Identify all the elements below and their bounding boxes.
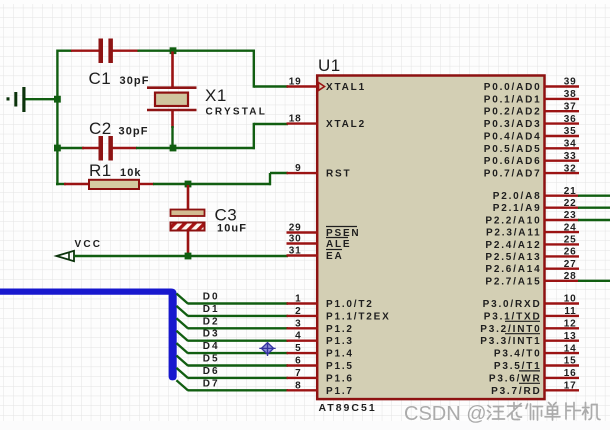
- svg-text:D6: D6: [203, 366, 220, 377]
- svg-text:P0.1/AD1: P0.1/AD1: [484, 94, 542, 105]
- svg-text:7: 7: [295, 368, 301, 379]
- svg-text:5: 5: [295, 343, 301, 354]
- pin 6 stub: [287, 364, 319, 366]
- wire P2 bus: [578, 194, 610, 196]
- svg-text:26: 26: [564, 247, 577, 258]
- svg-text:D2: D2: [203, 316, 220, 327]
- svg-text:P1.7: P1.7: [326, 386, 354, 397]
- wire C2 left: [57, 147, 84, 149]
- svg-text:ALE: ALE: [326, 239, 351, 250]
- pin 4 stub: [287, 340, 319, 342]
- pin 16 stub: [544, 377, 579, 379]
- wire D1 to P1.1: [188, 315, 289, 317]
- ground: [7, 87, 26, 112]
- svg-text:37: 37: [564, 101, 577, 112]
- svg-text:P1.2: P1.2: [326, 324, 354, 335]
- wire C1 left: [57, 50, 72, 52]
- svg-text:D7: D7: [203, 378, 220, 389]
- capacitor C1: [71, 39, 139, 64]
- svg-text:15: 15: [564, 356, 577, 367]
- svg-text:36: 36: [564, 114, 577, 125]
- wire D2 to P1.2: [188, 327, 289, 329]
- svg-text:18: 18: [289, 114, 302, 125]
- svg-text:P0.0/AD0: P0.0/AD0: [484, 82, 542, 93]
- junction R1/C3: [185, 181, 192, 188]
- svg-text:P1.0/T2: P1.0/T2: [326, 299, 374, 310]
- svg-text:P2.2/A10: P2.2/A10: [485, 216, 541, 227]
- svg-text:14: 14: [564, 343, 577, 354]
- junction ground/left rail: [54, 96, 61, 103]
- svg-text:3: 3: [295, 318, 301, 329]
- wire P2 bus: [578, 206, 610, 208]
- svg-text:23: 23: [564, 210, 577, 221]
- junction C3/VCC wire: [185, 253, 192, 260]
- overline INT0: [505, 320, 540, 322]
- svg-text:P2.6/A14: P2.6/A14: [485, 264, 541, 275]
- wire D4 to P1.4: [188, 352, 289, 354]
- pin 14 stub: [544, 352, 579, 354]
- bus entry D0: [176, 294, 187, 304]
- svg-text:19: 19: [289, 77, 302, 88]
- junction left rail / C2: [54, 145, 61, 152]
- capacitor C3: [171, 185, 205, 253]
- bus entry D2: [176, 318, 187, 328]
- wire D6 to P1.6: [188, 377, 289, 379]
- pin 28 stub: [544, 280, 579, 282]
- bus entry D3: [176, 331, 187, 341]
- svg-text:P2.3/A11: P2.3/A11: [486, 228, 542, 239]
- pin 30 stub: [287, 242, 319, 244]
- svg-text:11: 11: [564, 306, 576, 317]
- pin 9 stub: [287, 172, 319, 174]
- overline RD: [519, 382, 540, 384]
- overline INT1: [505, 333, 540, 335]
- svg-text:P2.5/A13: P2.5/A13: [485, 252, 541, 263]
- svg-text:U1: U1: [318, 56, 341, 75]
- svg-text:1: 1: [295, 294, 301, 305]
- svg-text:33: 33: [564, 151, 577, 162]
- overline WR: [519, 370, 540, 372]
- pin 31 stub: [287, 254, 319, 256]
- wire to XTAL1: [254, 85, 288, 87]
- wire P2 bus: [578, 219, 610, 221]
- pin 33 stub: [544, 159, 579, 161]
- svg-text:16: 16: [564, 368, 577, 379]
- wire D3 to P1.3: [188, 340, 289, 342]
- bus entry D6: [176, 368, 187, 378]
- wire node to XTAL1 vertical: [253, 50, 255, 88]
- svg-text:22: 22: [564, 198, 577, 209]
- svg-text:C2: C2: [89, 119, 112, 138]
- svg-text:D0: D0: [203, 292, 220, 303]
- wire to R1: [56, 183, 66, 185]
- wire left vertical rail: [56, 50, 58, 186]
- svg-text:12: 12: [564, 319, 577, 330]
- pin 35 stub: [544, 135, 579, 137]
- svg-text:P3.4/T0: P3.4/T0: [494, 349, 542, 360]
- pin 36 stub: [544, 122, 579, 124]
- svg-text:4: 4: [295, 331, 301, 342]
- watermark band: [0, 421, 610, 430]
- svg-text:C1: C1: [89, 69, 112, 88]
- svg-text:EA: EA: [326, 251, 344, 262]
- svg-text:P1.4: P1.4: [326, 349, 354, 360]
- pin 3 stub: [287, 327, 319, 329]
- svg-text:P1.3: P1.3: [326, 336, 354, 347]
- svg-text:X1: X1: [205, 86, 227, 105]
- crystal X1: [147, 52, 197, 129]
- pin 18 stub: [287, 122, 319, 124]
- svg-text:39: 39: [564, 77, 577, 88]
- svg-text:XTAL2: XTAL2: [326, 119, 366, 130]
- svg-text:CSDN @: CSDN @: [404, 403, 487, 425]
- wire to RST: [270, 172, 288, 174]
- pin 26 stub: [544, 255, 579, 257]
- svg-text:AT89C51: AT89C51: [319, 402, 377, 414]
- svg-text:24: 24: [564, 222, 577, 233]
- svg-text:9: 9: [295, 163, 301, 174]
- pin 7 stub: [287, 377, 319, 379]
- pin 11 stub: [544, 315, 579, 317]
- overline EA: [326, 249, 342, 251]
- wire RST vertical: [269, 173, 271, 185]
- bus entry D7: [176, 380, 187, 390]
- bus D0-D7: [0, 289, 177, 381]
- svg-text:25: 25: [564, 235, 577, 246]
- pin 29 stub: [287, 231, 319, 233]
- svg-text:P1.1/T2EX: P1.1/T2EX: [326, 311, 391, 322]
- svg-text:P0.6/AD6: P0.6/AD6: [484, 156, 542, 167]
- svg-text:R1: R1: [89, 161, 112, 180]
- pin 5 stub: [287, 352, 319, 354]
- svg-text:D1: D1: [203, 304, 220, 315]
- svg-text:D3: D3: [203, 329, 220, 340]
- pin 12 stub: [544, 327, 579, 329]
- bus entry D5: [176, 356, 187, 366]
- svg-text:P2.1/A9: P2.1/A9: [493, 203, 542, 214]
- pin 23 stub: [544, 219, 579, 221]
- svg-text:34: 34: [564, 139, 577, 150]
- wire R1 to RST net: [153, 183, 271, 185]
- svg-text:D4: D4: [203, 341, 220, 352]
- svg-text:29: 29: [289, 223, 302, 234]
- svg-text:10: 10: [564, 294, 577, 305]
- pin 39 stub: [544, 85, 579, 87]
- pin 22 stub: [544, 206, 579, 208]
- power terminal VCC: [57, 251, 75, 261]
- svg-text:28: 28: [564, 271, 577, 282]
- svg-text:P3.0/RXD: P3.0/RXD: [483, 299, 542, 310]
- svg-text:30pF: 30pF: [120, 75, 150, 87]
- svg-text:6: 6: [295, 356, 301, 367]
- svg-text:27: 27: [564, 259, 577, 270]
- svg-text:10uF: 10uF: [217, 223, 247, 235]
- svg-text:31: 31: [289, 246, 302, 257]
- svg-text:P0.5/AD5: P0.5/AD5: [484, 144, 542, 155]
- svg-text:38: 38: [564, 89, 577, 100]
- wire C2 to crystal-bottom net: [136, 147, 255, 149]
- wire to XTAL2: [254, 123, 288, 125]
- overline PSEN: [326, 226, 357, 228]
- pin 15 stub: [544, 364, 579, 366]
- svg-text:P2.4/A12: P2.4/A12: [485, 240, 541, 251]
- svg-text:P3.3/INT1: P3.3/INT1: [480, 336, 541, 347]
- op-amp U1 body (AT89C51 chip body): [317, 76, 544, 400]
- bus entry D4: [176, 343, 187, 353]
- svg-text:35: 35: [564, 126, 577, 137]
- svg-text:P2.0/A8: P2.0/A8: [493, 191, 542, 202]
- pin 24 stub: [544, 231, 579, 233]
- junction crystal top: [170, 47, 177, 54]
- pin 27 stub: [544, 268, 579, 270]
- pin 17 stub: [544, 389, 579, 391]
- svg-text:30: 30: [289, 234, 302, 245]
- svg-text:VCC: VCC: [75, 239, 103, 250]
- svg-text:P1.6: P1.6: [326, 373, 354, 384]
- svg-text:CRYSTAL: CRYSTAL: [206, 107, 268, 118]
- pin XTAL1 arrow marker: [319, 83, 325, 91]
- pin 10 stub: [544, 302, 579, 304]
- svg-text:P1.5: P1.5: [326, 361, 354, 372]
- svg-text:2: 2: [295, 306, 301, 317]
- svg-text:17: 17: [564, 381, 577, 392]
- capacitor C2: [82, 136, 137, 161]
- svg-text:D5: D5: [203, 354, 220, 365]
- pin 21 stub: [544, 194, 579, 196]
- wire D7 to P1.7: [188, 389, 289, 391]
- bus entry D1: [176, 306, 187, 316]
- svg-text:P0.2/AD2: P0.2/AD2: [484, 107, 542, 118]
- pin 34 stub: [544, 147, 579, 149]
- pin 32 stub: [544, 172, 579, 174]
- pin 19 stub: [287, 85, 319, 87]
- pin 37 stub: [544, 110, 579, 112]
- wire D5 to P1.5: [188, 364, 289, 366]
- svg-text:10k: 10k: [120, 167, 142, 179]
- junction crystal bottom: [170, 145, 177, 152]
- wire ground to node: [26, 98, 59, 100]
- pin 25 stub: [544, 243, 579, 245]
- wire D0 to P1.0: [188, 302, 289, 304]
- wire P2 bus: [578, 280, 610, 282]
- svg-text:8: 8: [295, 380, 301, 391]
- pin 13 stub: [544, 340, 579, 342]
- pin 8 stub: [287, 389, 319, 391]
- svg-text:P0.3/AD3: P0.3/AD3: [484, 119, 542, 130]
- svg-text:P2.7/A15: P2.7/A15: [485, 276, 541, 287]
- svg-text:P0.4/AD4: P0.4/AD4: [484, 132, 542, 143]
- svg-text:32: 32: [564, 163, 577, 174]
- pin 38 stub: [544, 98, 579, 100]
- svg-text:P0.7/AD7: P0.7/AD7: [484, 169, 542, 180]
- pin 2 stub: [287, 315, 319, 317]
- wire node to XTAL2 vertical: [253, 123, 255, 149]
- svg-text:RST: RST: [326, 169, 351, 180]
- wire C1 to crystal-top net: [138, 50, 256, 52]
- svg-text:13: 13: [564, 331, 577, 342]
- pin 1 stub: [287, 302, 319, 304]
- wire crystal bottom lead: [171, 126, 173, 149]
- svg-text:21: 21: [564, 186, 577, 197]
- wire VCC to EA: [74, 255, 288, 257]
- svg-text:P3.7/RD: P3.7/RD: [491, 386, 541, 397]
- overline ALE: [326, 237, 348, 239]
- watermark chinese glyphs: [488, 403, 601, 421]
- svg-text:XTAL1: XTAL1: [326, 82, 366, 93]
- svg-text:30pF: 30pF: [119, 126, 149, 138]
- cursor crosshair: [259, 342, 275, 356]
